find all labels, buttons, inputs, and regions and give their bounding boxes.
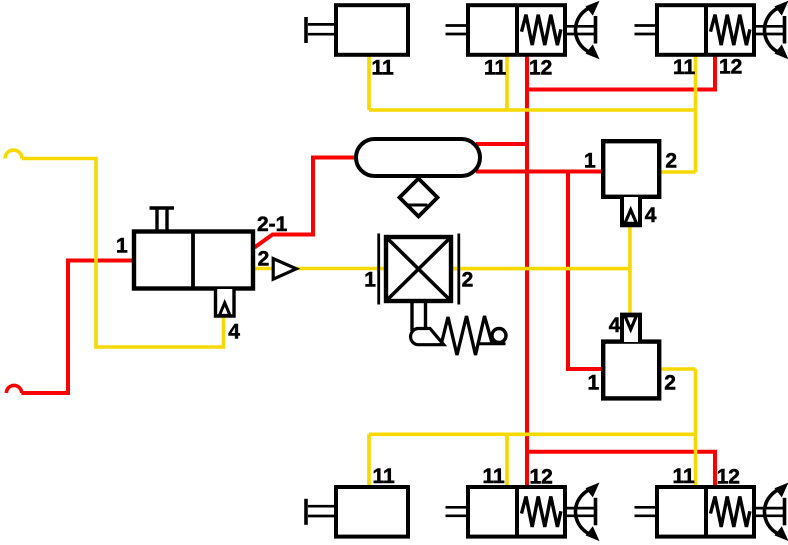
check valve after port 2 — [273, 259, 296, 280]
svg-text:2-1: 2-1 — [257, 213, 288, 236]
relay valve U3 port 4 stub — [622, 197, 640, 225]
wire red main vertical — [525, 55, 529, 489]
svg-text:11: 11 — [372, 57, 395, 80]
load sensing valve U2 body — [379, 234, 459, 305]
load sensing valve spring — [441, 316, 506, 355]
wire yellow valve port 2 to LSV port 1 — [255, 267, 384, 271]
relay valve U4 port 4 stub — [622, 315, 640, 342]
wire red reservoir to relay valve port 1 — [476, 170, 603, 174]
brake chamber A top left — [306, 5, 408, 55]
svg-text:2: 2 — [664, 372, 676, 395]
svg-text:12: 12 — [717, 466, 740, 489]
svg-text:1: 1 — [588, 372, 600, 395]
svg-text:1: 1 — [584, 150, 596, 173]
svg-text:2: 2 — [665, 150, 677, 173]
spring brake chamber F bottom right — [635, 483, 788, 542]
svg-text:2: 2 — [462, 269, 474, 292]
trailer control valve U1 exhaust — [150, 208, 175, 230]
svg-text:1: 1 — [364, 269, 376, 292]
wire red port 2-1 to reservoir — [255, 158, 359, 248]
wire red top branch to chamber C port 12 — [525, 55, 715, 90]
wire yellow top service manifold — [369, 55, 696, 110]
svg-text:11: 11 — [483, 465, 506, 488]
wire yellow supply coupling to valve port 4 — [22, 159, 224, 348]
load sensing valve linkage — [411, 303, 444, 345]
wire red supply coupling to valve port 1 — [21, 261, 134, 394]
svg-text:11: 11 — [673, 465, 696, 488]
spring brake chamber B top middle — [446, 1, 600, 60]
reservoir — [356, 139, 480, 176]
svg-text:12: 12 — [719, 56, 742, 79]
spring brake chamber E bottom middle — [446, 483, 600, 542]
svg-text:11: 11 — [373, 465, 396, 488]
coupling head yellow — [5, 150, 22, 158]
wire red bottom branch to chamber F port 12 — [525, 452, 715, 489]
trailer control valve U1 body — [134, 232, 253, 289]
wire yellow bottom relay port 2 riser — [659, 369, 696, 489]
svg-text:2: 2 — [258, 248, 270, 271]
trailer control valve U1 port 4 stub — [216, 289, 235, 316]
wire red branch to lower relay valve port 1 — [566, 172, 603, 370]
svg-text:11: 11 — [484, 57, 507, 80]
wire red reservoir upper output — [476, 142, 529, 146]
svg-text:12: 12 — [530, 466, 553, 489]
svg-text:4: 4 — [228, 321, 240, 344]
svg-text:4: 4 — [645, 204, 657, 227]
drain valve — [400, 179, 438, 217]
svg-text:1: 1 — [116, 235, 128, 258]
wire yellow LSV port 2 to relay control tee — [453, 267, 630, 271]
relay valve U3 top body — [603, 141, 659, 197]
svg-text:11: 11 — [673, 56, 696, 79]
wire yellow relay port 4 to relay port 4 — [628, 225, 632, 315]
wire yellow top relay port 2 riser — [659, 55, 696, 172]
wire yellow bottom service manifold — [369, 434, 696, 489]
svg-text:4: 4 — [609, 314, 621, 337]
brake chamber D bottom left — [306, 487, 408, 537]
spring brake chamber C top right — [635, 1, 788, 60]
coupling head red — [6, 385, 21, 393]
svg-text:12: 12 — [529, 57, 552, 80]
relay valve U4 bottom body — [603, 342, 659, 399]
